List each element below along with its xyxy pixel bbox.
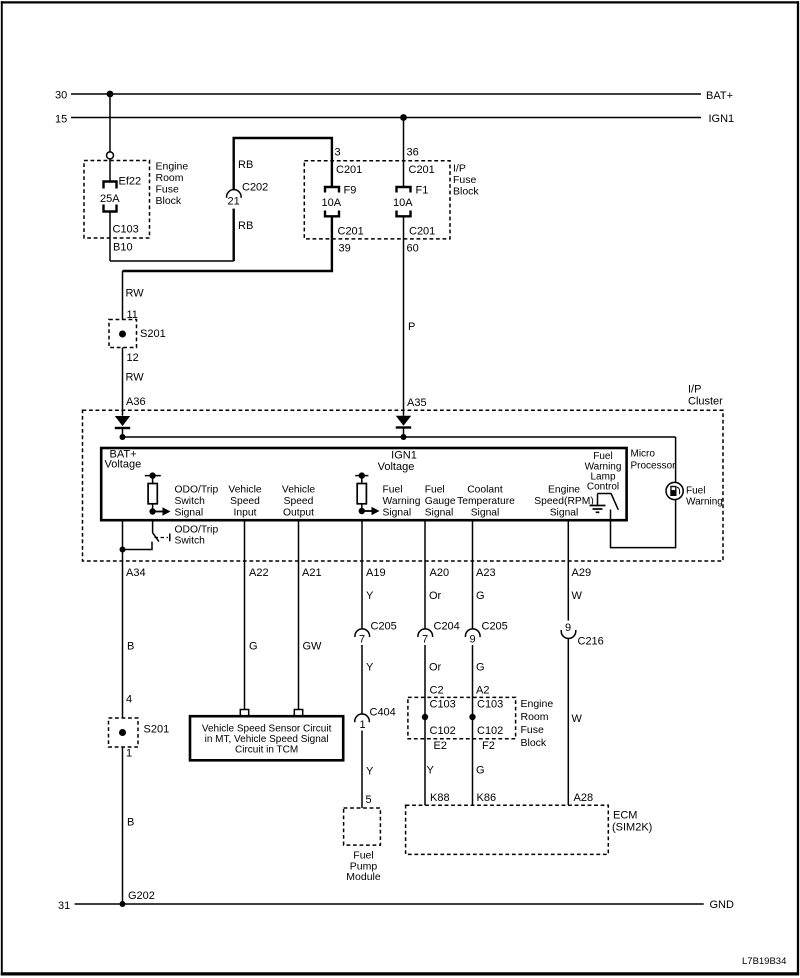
label IGN1 Voltage [378,450,417,474]
svg-text:12: 12 [127,352,139,364]
svg-text:21: 21 [228,196,240,208]
svg-text:S201: S201 [140,328,166,340]
svg-text:C204: C204 [434,621,460,633]
svg-text:(SIM2K): (SIM2K) [612,822,652,834]
svg-text:Vehicle: Vehicle [282,485,315,496]
pin square A21 at VSS box [294,710,302,717]
svg-text:Switch: Switch [175,496,206,507]
svg-text:C205: C205 [482,621,508,633]
svg-text:A20: A20 [430,567,450,579]
svg-text:Speed: Speed [284,496,314,507]
svg-text:RW: RW [126,372,145,384]
wire P from fuse F1 pin 60 to diode A35 [404,216,427,415]
svg-text:in MT, Vehicle Speed Signal: in MT, Vehicle Speed Signal [205,734,329,745]
svg-text:Voltage: Voltage [378,461,415,473]
resistor ODO/trip pull-up [145,472,161,514]
svg-text:31: 31 [58,900,70,912]
splice S201 (lower) [109,718,170,760]
wire A22 G to VSS box [245,521,269,710]
svg-text:RW: RW [126,288,145,300]
svg-text:A22: A22 [249,567,269,579]
svg-text:Module: Module [346,871,381,883]
engine room fuse block (lower) dashed box [408,697,553,749]
svg-text:Cluster: Cluster [688,396,723,408]
svg-text:C103: C103 [113,224,139,236]
svg-text:G202: G202 [128,890,155,902]
svg-text:A23: A23 [476,567,496,579]
fuse F9 10A [322,185,364,255]
svg-text:G: G [249,641,258,653]
svg-text:C201: C201 [336,164,362,176]
svg-text:Vehicle Speed Sensor Circuit: Vehicle Speed Sensor Circuit [202,724,332,735]
fuse Ef22 25A [100,176,141,236]
svg-text:W: W [572,713,583,725]
svg-text:Fuse: Fuse [453,174,477,186]
svg-text:B: B [127,817,134,829]
svg-text:Micro: Micro [631,449,656,460]
svg-text:Fuse: Fuse [521,724,545,736]
wire bus 15 IGN1 [55,113,734,126]
svg-text:Y: Y [366,662,374,674]
svg-text:Or: Or [429,590,442,602]
ground at lamp control [590,494,606,513]
label BAT+ Voltage [105,449,142,471]
svg-text:Temperature: Temperature [457,496,515,507]
svg-text:C205: C205 [371,621,397,633]
svg-text:L7B19B34: L7B19B34 [742,956,786,967]
svg-text:5: 5 [366,794,372,806]
svg-text:Gauge: Gauge [425,496,456,507]
svg-text:Signal: Signal [550,508,579,519]
svg-text:I/P: I/P [453,163,466,175]
svg-text:Control: Control [587,482,619,493]
svg-text:A36: A36 [126,396,146,408]
label fuel warning lamp control [585,451,622,493]
svg-text:IGN1: IGN1 [709,113,735,125]
svg-text:Speed(RPM): Speed(RPM) [534,496,594,507]
wire fuse F9 pin 39 down and left to RW column [123,216,332,271]
svg-text:9: 9 [565,622,571,634]
wire RW from corner down to S201 [123,271,145,321]
svg-text:Warning: Warning [383,496,421,507]
svg-text:Y: Y [427,765,435,777]
svg-text:Circuit in TCM: Circuit in TCM [235,745,298,756]
wire Or to engine room fuse block [425,645,444,805]
I/P cluster dashed box [83,384,724,562]
box vehicle speed sensor circuit [190,716,343,760]
svg-text:Room: Room [156,172,184,184]
svg-text:GND: GND [710,899,735,911]
svg-text:1: 1 [126,748,132,760]
svg-text:IGN1: IGN1 [391,450,417,462]
connector C204 pin 7 [418,621,460,646]
svg-text:A29: A29 [572,567,592,579]
wire A21 GW to VSS box [299,521,323,710]
svg-text:Signal: Signal [471,508,500,519]
svg-text:C201: C201 [338,226,364,238]
svg-text:B10: B10 [113,242,133,254]
svg-text:Engine: Engine [548,485,580,496]
svg-text:F1: F1 [416,185,429,197]
svg-text:P: P [408,321,415,333]
svg-text:Fuel: Fuel [686,486,705,497]
svg-text:I/P: I/P [688,384,701,396]
svg-text:4: 4 [126,694,132,706]
svg-text:ODO/Trip: ODO/Trip [175,525,219,536]
svg-text:Signal: Signal [383,508,412,519]
label engine speed RPM signal [534,485,594,519]
svg-text:C103: C103 [430,699,456,711]
wire switch to A34 [123,542,153,550]
fuel pump module dashed box [344,808,381,883]
svg-text:Block: Block [453,186,479,198]
svg-text:GW: GW [303,641,323,653]
svg-text:A2: A2 [476,685,489,697]
svg-text:C102: C102 [430,725,456,737]
svg-text:Fuse: Fuse [156,184,180,196]
svg-text:Voltage: Voltage [105,459,142,471]
switch fuel warning lamp control [598,493,619,510]
wire A19 Y upper [362,521,386,629]
svg-text:Engine: Engine [156,161,189,173]
svg-text:C2: C2 [430,685,444,697]
svg-text:3: 3 [335,147,341,159]
wire from bus 15 to fuse F1 [404,118,435,188]
splice S201 (upper) [109,320,166,348]
svg-text:Switch: Switch [175,536,206,547]
wire A20 Or upper [425,521,449,629]
svg-text:RB: RB [238,220,253,232]
svg-text:A21: A21 [302,567,322,579]
svg-text:A28: A28 [574,792,594,804]
wire A23 G upper [473,521,496,629]
svg-text:Y: Y [366,590,374,602]
svg-text:Fuel: Fuel [593,451,612,462]
svg-text:25A: 25A [100,193,120,205]
svg-text:1: 1 [360,719,366,731]
I/P fuse block dashed box [304,161,479,239]
switch ODO/trip external [152,521,218,547]
svg-text:A34: A34 [126,567,146,579]
svg-text:C216: C216 [578,636,604,648]
svg-text:Block: Block [156,195,182,207]
svg-text:Coolant: Coolant [467,485,503,496]
wire A29 W upper [565,521,591,635]
svg-text:RB: RB [238,159,253,171]
svg-text:7: 7 [359,634,365,646]
svg-text:G: G [476,662,485,674]
svg-text:Signal: Signal [175,508,204,519]
wire B from S201 to G202 [123,747,135,904]
svg-text:60: 60 [407,243,419,255]
svg-text:Output: Output [283,508,314,519]
svg-text:K88: K88 [430,792,450,804]
connector C202 pin 21 [227,182,269,208]
svg-text:39: 39 [339,243,351,255]
svg-text:A35: A35 [407,397,427,409]
svg-text:F2: F2 [482,740,495,752]
svg-text:Ef22: Ef22 [119,176,142,188]
engine room fuse block (top) dashed box [84,161,188,239]
svg-text:Room: Room [521,711,549,723]
svg-text:Fuel: Fuel [425,485,445,496]
svg-text:10A: 10A [322,197,342,209]
svg-text:C202: C202 [242,182,268,194]
wire RB above C202 to fuse F9 [234,138,363,190]
connector C216 pin 9 [561,630,604,648]
wire internal rail A36 to micro processor [123,436,676,438]
wire lamp control to micro processor loop [611,437,676,548]
wire circle to fuse Ef22 [109,159,111,182]
svg-text:Engine: Engine [521,698,554,710]
svg-text:BAT+: BAT+ [706,90,733,102]
arrow fuel warning signal [362,485,421,519]
resistor fuel warning pull-up [355,472,368,514]
connector C205 pin 7 [355,621,397,646]
wire from bus 30 down to fuse Ef22 [109,94,111,152]
svg-text:36: 36 [407,147,419,159]
svg-text:G: G [476,590,485,602]
wire Y to fuel pump module [362,731,374,809]
svg-text:Y: Y [366,766,374,778]
label vehicle speed output [282,485,315,519]
svg-text:F9: F9 [344,185,357,197]
svg-text:C201: C201 [409,164,435,176]
svg-text:Or: Or [429,662,442,674]
svg-text:Vehicle: Vehicle [228,485,261,496]
node splice in fuse block at C103/C102 (left) [422,714,428,720]
wire B10 horizontal to C202 [110,260,234,262]
svg-text:C404: C404 [370,707,396,719]
svg-text:Processor: Processor [631,461,677,472]
diode A35 [396,416,411,437]
svg-text:Signal: Signal [425,508,454,519]
indicator fuel warning lamp [666,482,723,507]
wire G to engine room fuse block [473,645,490,805]
terminal circle at fuse block entry [107,152,114,159]
wire RB below C202 [234,209,254,261]
svg-text:Input: Input [234,508,257,519]
svg-text:G: G [476,765,485,777]
svg-text:9: 9 [470,634,476,646]
wire W to ECM A28 [568,639,593,806]
wire RW from S201 to diode A36 [123,348,146,416]
wire fuse Ef22 to B10 corner [110,212,133,262]
wire Y to C404 [362,645,374,714]
node rail at A36 [120,434,126,440]
node junction on bus 30 [107,91,114,98]
diode A36 [115,416,130,437]
wire bus 31 GND [58,899,734,912]
node junction on bus 15 [400,114,407,121]
ECM dashed box [406,805,653,854]
svg-text:S201: S201 [144,724,170,736]
node splice in fuse block at C103/C102 (right) [469,714,475,720]
svg-text:C103: C103 [477,699,503,711]
svg-text:Block: Block [521,737,547,749]
svg-text:10A: 10A [393,197,413,209]
svg-text:C201: C201 [409,226,435,238]
svg-text:Warning: Warning [686,497,723,508]
node rail at A35 [401,434,407,440]
svg-text:Speed: Speed [230,496,260,507]
micro processor label [631,449,677,472]
svg-text:C102: C102 [477,725,503,737]
svg-text:Fuel: Fuel [383,485,403,496]
svg-text:30: 30 [55,90,67,102]
connector C404 pin 1 [355,707,396,732]
fuse F1 10A [393,185,435,255]
label coolant temperature signal [457,485,515,519]
label vehicle speed input [228,485,261,519]
connector C205 pin 9 [465,621,507,646]
svg-text:ODO/Trip: ODO/Trip [175,485,219,496]
svg-text:B: B [127,641,134,653]
wire A34 below cluster box [120,521,146,719]
arrow ODO/trip switch signal [153,485,219,519]
label fuel gauge signal [425,485,456,519]
I/P cluster inner box [101,448,626,520]
svg-text:A19: A19 [366,567,386,579]
svg-text:ECM: ECM [613,810,637,822]
svg-text:7: 7 [422,634,428,646]
svg-text:K86: K86 [477,792,497,804]
pin square A22 at VSS box [240,710,248,717]
wire bus 30 BAT+ [55,90,733,103]
svg-text:W: W [572,590,583,602]
node G202 ground junction [120,890,155,907]
svg-text:E2: E2 [434,740,447,752]
svg-text:15: 15 [55,114,67,126]
label E2 F2 and wires to ECM [427,740,497,804]
